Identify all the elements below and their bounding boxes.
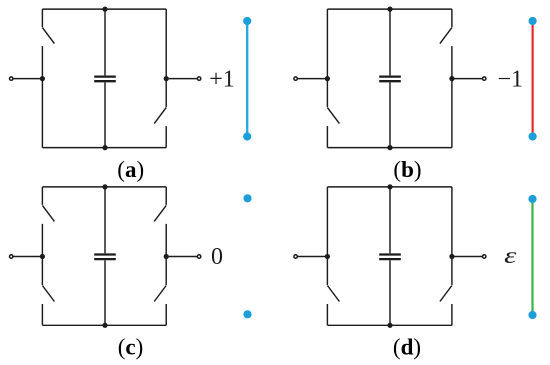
svg-text:ε: ε [504, 242, 516, 269]
switch S1 top-left (a) open [42, 9, 54, 79]
junction: left mid node (b) [325, 76, 330, 81]
switch S3 top-right (a) closed wire [165, 9, 167, 79]
junction: bottom node (a) [102, 145, 107, 150]
output level indicator line (d) [531, 199, 533, 315]
wire: top rail (a) [42, 8, 166, 10]
svg-text:(d): (d) [393, 335, 421, 360]
switch S3 top-right (d) closed wire [451, 187, 453, 257]
indicator endpoint dot top (b) [529, 17, 537, 25]
terminal node right (a) [197, 77, 200, 80]
svg-text:(b): (b) [393, 157, 421, 182]
junction: right mid node (b) [449, 76, 454, 81]
indicator endpoint dot bottom (b) [529, 132, 537, 140]
switch S2 bottom-left (a) closed wire [41, 79, 43, 148]
wire: left terminal lead (a) [11, 78, 42, 80]
indicator endpoint dot bottom (d) [528, 311, 536, 319]
wire: left terminal lead (c) [11, 256, 42, 258]
indicator endpoint dot top (a) [243, 17, 251, 25]
indicator endpoint dot bottom (a) [243, 132, 251, 140]
switch S1 top-left (c) open [42, 187, 54, 257]
output level indicator line (b) [532, 21, 534, 137]
svg-text:0: 0 [211, 244, 223, 270]
junction: top node (b) [387, 7, 392, 12]
wire: right terminal lead (d) [452, 256, 484, 258]
wire: bottom rail (a) [42, 147, 166, 149]
wire: right terminal lead (a) [166, 78, 199, 80]
terminal node right (d) [483, 255, 486, 258]
junction: right mid node (a) [164, 76, 169, 81]
switch S2 bottom-left (c) open [42, 257, 54, 326]
switch S4 bottom-right (c) open [154, 257, 166, 326]
switch S4 bottom-right (d) open [440, 257, 452, 326]
wire: bottom rail (c) [42, 324, 166, 326]
switch S2 bottom-left (b) open [327, 79, 339, 148]
terminal node left (c) [10, 255, 13, 258]
output level indicator line (a) [246, 21, 248, 137]
indicator endpoint dot bottom (c) [243, 310, 251, 318]
junction: top node (c) [102, 184, 107, 189]
wire: right terminal lead (b) [452, 78, 484, 80]
junction: left mid node (c) [40, 254, 45, 259]
terminal node right (b) [483, 77, 486, 80]
terminal node right (c) [197, 255, 200, 258]
capacitor C (c) [94, 187, 116, 325]
wire: top rail (d) [327, 186, 452, 188]
terminal node left (a) [10, 77, 13, 80]
wire: left terminal lead (b) [296, 78, 328, 80]
wire: top rail (b) [327, 8, 452, 10]
junction: left mid node (d) [325, 254, 330, 259]
capacitor C (d) [379, 187, 401, 325]
wire: bottom rail (b) [327, 147, 452, 149]
indicator endpoint dot top (d) [528, 195, 536, 203]
wire: bottom rail (d) [327, 324, 452, 326]
H-bridge cell (a): S1,S4 open [10, 7, 201, 151]
wire: left terminal lead (d) [296, 256, 328, 258]
wire: right terminal lead (c) [166, 256, 199, 258]
H-bridge cell (c): all switches open [10, 184, 201, 328]
switch S3 top-right (c) open [154, 187, 166, 257]
junction: left mid node (a) [40, 76, 45, 81]
junction: bottom node (b) [387, 145, 392, 150]
svg-text:(a): (a) [117, 157, 144, 182]
capacitor C (a) [94, 9, 116, 148]
switch S1 top-left (d) closed wire [326, 187, 328, 257]
junction: bottom node (c) [102, 323, 107, 328]
switch S4 bottom-right (a) open [154, 79, 166, 148]
wire: top rail (c) [42, 186, 166, 188]
terminal node left (d) [294, 255, 297, 258]
svg-text:+1: +1 [209, 66, 235, 92]
junction: right mid node (d) [449, 254, 454, 259]
junction: bottom node (d) [387, 323, 392, 328]
svg-text:−1: −1 [498, 66, 524, 92]
indicator endpoint dot top (c) [243, 194, 251, 202]
switch S4 bottom-right (b) closed wire [451, 79, 453, 148]
switch S2 bottom-left (d) open [327, 257, 339, 326]
H-bridge cell (d): S2,S4 open [294, 184, 486, 328]
junction: top node (d) [387, 184, 392, 189]
switch S3 top-right (b) open [440, 9, 452, 79]
capacitor C (b) [379, 9, 401, 148]
junction: right mid node (c) [164, 254, 169, 259]
svg-text:(c): (c) [118, 335, 144, 360]
junction: top node (a) [102, 7, 107, 12]
switch S1 top-left (b) closed wire [326, 9, 328, 79]
H-bridge cell (b): S2,S3 open [294, 7, 486, 151]
terminal node left (b) [294, 77, 297, 80]
